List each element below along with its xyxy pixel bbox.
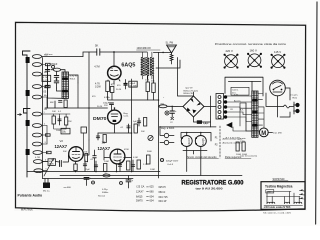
node bridge left dot xyxy=(171,106,173,108)
svg-text:6.8Mμ: 6.8Mμ xyxy=(104,97,111,99)
svg-text:5K: 5K xyxy=(95,44,98,48)
wire bridge top xyxy=(178,58,194,97)
svg-text:1.47K: 1.47K xyxy=(43,80,49,82)
wire right-left bus xyxy=(158,52,160,178)
capacitor C mid bottom xyxy=(94,161,107,172)
caption parte superiore xyxy=(225,156,251,159)
svg-text:100Ω: 100Ω xyxy=(236,154,241,156)
svg-text:DM70: DM70 xyxy=(93,116,107,121)
svg-text:Smont. zoccoli visti da sotto: Smont. zoccoli visti da sotto xyxy=(187,156,217,159)
svg-text:tipo V9: tipo V9 xyxy=(186,87,194,90)
capacitor pot cluster mid xyxy=(137,118,153,141)
label 4uF xyxy=(166,161,179,166)
dashed linkage line xyxy=(219,126,221,158)
resistor R7 vert xyxy=(236,142,239,151)
wires transformer right stubs xyxy=(258,94,264,129)
svg-text:≤40 fondo scala 2V 5K6: ≤40 fondo scala 2V 5K6 xyxy=(264,206,291,209)
svg-text:470: 470 xyxy=(111,84,116,87)
svg-text:1/4M: 1/4M xyxy=(150,169,155,171)
resistor R11 xyxy=(147,155,151,164)
wire heater bottom xyxy=(183,147,207,176)
svg-text:625: 625 xyxy=(150,186,155,189)
mains arrow black xyxy=(226,122,232,128)
svg-text:220 V: 220 V xyxy=(226,49,233,53)
capacitor C8 electrolytic xyxy=(126,176,134,189)
motor M1 xyxy=(259,128,282,137)
resistor R10 xyxy=(137,160,141,169)
wire cathode down xyxy=(108,92,159,101)
svg-text:A.T. 6.3V 125V: A.T. 6.3V 125V xyxy=(226,137,241,140)
svg-text:a rete: a rete xyxy=(240,137,246,140)
relay box xyxy=(231,87,249,95)
label accens xyxy=(234,95,244,112)
svg-text:25V: 25V xyxy=(104,105,108,107)
inset box testina xyxy=(261,182,305,210)
svg-text:50.16: 50.16 xyxy=(97,106,103,108)
svg-text:30K: 30K xyxy=(63,151,67,153)
node speaker dot xyxy=(162,52,164,54)
box 18c xyxy=(61,128,70,134)
label DM70 right xyxy=(124,113,130,118)
svg-text:R0L/1: R0L/1 xyxy=(70,78,76,80)
wire DM70 lower bus xyxy=(98,132,132,134)
node plate junction xyxy=(113,51,115,53)
resistor cluster left mid xyxy=(43,114,71,129)
connector J1 pin blocks xyxy=(26,57,30,155)
resistor mini c xyxy=(46,134,51,136)
svg-text:M.PI./Tech.: M.PI./Tech. xyxy=(21,209,33,212)
terminal T3 xyxy=(32,72,41,76)
tube V2 triode A xyxy=(55,139,84,161)
wire grid links xyxy=(42,155,68,162)
wire motor xyxy=(246,103,259,131)
wire top bus xyxy=(42,56,83,58)
svg-text:S0.4+0: S0.4+0 xyxy=(98,195,106,197)
svg-text:160 V: 160 V xyxy=(250,49,257,53)
svg-text:B300-C90: B300-C90 xyxy=(184,93,195,95)
switch power circle xyxy=(270,80,286,96)
capacitor C2 box xyxy=(129,81,137,87)
wire left bus B xyxy=(47,65,49,109)
border frame xyxy=(16,22,306,211)
speaker LS1 xyxy=(166,42,177,60)
label transformer right xyxy=(70,76,78,81)
capacitor C-link xyxy=(93,150,96,172)
component cluster lower osc xyxy=(52,100,67,113)
terminal T8 xyxy=(32,133,41,137)
wires strip to transformer xyxy=(227,96,252,122)
label ladder values xyxy=(145,80,155,83)
svg-text:50.16B: 50.16B xyxy=(130,86,137,88)
svg-text:Accens.: Accens. xyxy=(234,100,242,103)
resistor R1 4.7K xyxy=(95,81,109,92)
tube heater table xyxy=(136,186,168,203)
wire triodeB bottom xyxy=(104,150,117,172)
heater tube A 12AX7 xyxy=(181,136,192,147)
voltage switch S2 160V xyxy=(247,49,262,68)
wire power area misc xyxy=(233,103,246,131)
svg-text:0.25μ: 0.25μ xyxy=(102,189,108,191)
node dot-circle 1 xyxy=(92,181,95,184)
svg-text:Testina Magnetica: Testina Magnetica xyxy=(265,184,293,188)
pot arrow diagonal xyxy=(44,159,54,177)
label pins xyxy=(44,55,48,171)
svg-text:100K: 100K xyxy=(56,130,61,132)
wire strip vertical xyxy=(210,96,212,127)
svg-text:Fon: Fon xyxy=(44,72,47,74)
wire switch nets xyxy=(225,77,290,100)
resistor R2 470 xyxy=(110,84,115,93)
svg-text:25K: 25K xyxy=(68,121,72,123)
svg-text:tens.: tens. xyxy=(232,92,237,95)
component 1M box xyxy=(81,127,87,150)
svg-text:4.7Ω RI: 4.7Ω RI xyxy=(70,76,78,78)
fuse F1 xyxy=(284,105,290,108)
capacitor C11 dark xyxy=(197,120,208,125)
svg-text:625 PI: 625 PI xyxy=(159,186,167,189)
resistor mini d xyxy=(47,151,52,153)
jack J2 xyxy=(160,133,174,144)
svg-text:50.16: 50.16 xyxy=(116,89,122,91)
svg-text:Toll. valori res. e cond. ±10%: Toll. valori res. e cond. ±10% xyxy=(263,212,291,215)
terminal T5 xyxy=(32,95,41,99)
svg-text:I 25 CA: I 25 CA xyxy=(136,186,145,189)
svg-text:25μF: 25μF xyxy=(85,169,91,171)
wire bridge right xyxy=(204,106,216,108)
arrow into connector xyxy=(18,114,22,116)
mains plug P1 xyxy=(290,93,300,114)
svg-text:6×0.5: 6×0.5 xyxy=(168,163,174,166)
caption zoccoli xyxy=(187,156,219,159)
svg-text:DM70: DM70 xyxy=(136,200,143,203)
wire mid bus xyxy=(45,107,108,109)
terminal strip TS1 xyxy=(216,94,227,120)
resistor R4 ladder b xyxy=(152,83,155,93)
wire rete left xyxy=(159,127,161,135)
svg-text:100/CM94 RI: 100/CM94 RI xyxy=(137,47,151,50)
wires bottom bus 1 xyxy=(27,171,160,173)
svg-text:V2: V2 xyxy=(60,139,64,143)
wires bottom bus 2 xyxy=(60,175,242,177)
svg-text:12AX7: 12AX7 xyxy=(187,137,191,146)
wire rete bus xyxy=(160,126,216,128)
tube V2 triode B xyxy=(98,140,125,164)
svg-text:660: 660 xyxy=(150,191,155,194)
svg-text:B250-C75 [x2]: B250-C75 [x2] xyxy=(184,90,198,92)
svg-text:Comm.: Comm. xyxy=(232,90,239,92)
svg-text:mot. 4/W: mot. 4/W xyxy=(273,132,283,135)
wire to V3 plate xyxy=(113,52,115,66)
terminal T12 xyxy=(34,169,43,173)
capacitor C3 100uF xyxy=(103,103,114,111)
svg-text:1/2: 1/2 xyxy=(102,140,106,144)
terminal T10 xyxy=(33,151,42,155)
svg-text:6.3V: 6.3V xyxy=(234,95,239,97)
capacitor black C10 xyxy=(124,80,127,90)
inset label SOPR xyxy=(273,178,289,181)
wire bridge bottom xyxy=(194,117,211,122)
svg-text:2.2K: 2.2K xyxy=(143,164,148,166)
svg-text:SOPR.540: SOPR.540 xyxy=(273,178,286,181)
svg-text:ver.680: ver.680 xyxy=(64,186,72,189)
svg-text:Posizione commut. tensione v: Posizione commut. tensione vista da retr… xyxy=(215,42,286,46)
switch SW-rec black xyxy=(43,179,50,193)
junction dots bottom xyxy=(42,99,161,172)
node heater dots xyxy=(186,132,202,134)
svg-text:4.7M: 4.7M xyxy=(43,77,48,79)
resistor R3 ladder a xyxy=(146,82,149,92)
svg-text:604: 604 xyxy=(150,200,155,203)
terminal T1 xyxy=(32,55,41,59)
voltage switch S1 220V xyxy=(224,49,239,69)
capacitor cluster mid xyxy=(127,124,138,133)
terminal T4 xyxy=(32,85,41,89)
terminal T11 xyxy=(33,160,42,164)
oscillator transformer T-osc xyxy=(137,47,161,79)
svg-text:1M: 1M xyxy=(44,109,47,111)
wire fuse xyxy=(266,93,294,107)
resistor box R5 4.7M xyxy=(42,75,51,82)
svg-text:6AQ5: 6AQ5 xyxy=(136,195,143,198)
bridge rectifier B1 xyxy=(183,87,204,118)
svg-text:4(5)μF 160V: 4(5)μF 160V xyxy=(166,161,179,163)
wire speaker link xyxy=(153,52,180,68)
label mic values xyxy=(98,189,108,197)
svg-text:604 1P: 604 1P xyxy=(159,200,167,203)
svg-text:100Ω: 100Ω xyxy=(242,154,247,156)
resistor oval 750 xyxy=(159,104,167,108)
wires bottom bus 3 xyxy=(43,178,134,180)
svg-text:100 mm: 100 mm xyxy=(45,54,53,56)
wire bridge left xyxy=(159,105,184,107)
terminal T2 xyxy=(32,63,41,67)
capacitor C5 xyxy=(44,86,49,94)
svg-text:Reg. a 500K: Reg. a 500K xyxy=(161,127,175,130)
svg-text:4.7M: 4.7M xyxy=(94,66,99,69)
svg-text:Pulsante Audio: Pulsante Audio xyxy=(18,194,43,198)
pilot lamp LP1 xyxy=(165,111,169,115)
svg-text:1/2W: 1/2W xyxy=(95,85,101,88)
svg-text:12AX7: 12AX7 xyxy=(136,191,144,194)
svg-text:0.5M: 0.5M xyxy=(133,157,138,159)
label alzata xyxy=(223,138,244,145)
svg-text:CANC: CANC xyxy=(267,190,274,193)
wire screen bus xyxy=(88,52,90,140)
fuse oval on wire xyxy=(52,65,61,71)
input transformer T2 xyxy=(62,72,69,98)
svg-text:50K: 50K xyxy=(141,131,145,133)
svg-text:Com.: Com. xyxy=(124,116,130,118)
wire left bus A xyxy=(42,58,44,179)
svg-text:470K: 470K xyxy=(124,149,129,151)
wire ladder links xyxy=(148,76,154,100)
capacitor pair triodeB xyxy=(118,160,134,172)
svg-text:500Hz: 500Hz xyxy=(102,192,108,194)
svg-text:6AQ5: 6AQ5 xyxy=(121,63,135,69)
svg-text:SL. PM: SL. PM xyxy=(166,42,174,44)
svg-text:604: 604 xyxy=(150,195,155,198)
svg-text:10K: 10K xyxy=(52,111,56,113)
svg-text:150K: 150K xyxy=(49,164,55,166)
tube V4 DM70 xyxy=(93,110,121,124)
component cluster under DM70 xyxy=(96,133,106,143)
wire osc vertical x78 xyxy=(77,83,79,108)
power transformer T3 xyxy=(252,91,258,137)
svg-text:Rete: Rete xyxy=(293,97,298,100)
svg-text:1M: 1M xyxy=(84,151,87,153)
capacitor C6 xyxy=(60,161,62,167)
terminal T6 xyxy=(32,112,41,116)
label a rete xyxy=(240,137,246,143)
resistor R1M vert xyxy=(84,151,87,161)
svg-text:4.7M: 4.7M xyxy=(35,157,40,159)
svg-text:1.5K: 1.5K xyxy=(145,80,150,82)
svg-text:604 715: 604 715 xyxy=(159,196,169,199)
capacitor C9 filter xyxy=(170,106,177,120)
svg-text:1/4M: 1/4M xyxy=(104,161,109,163)
terminal T9 xyxy=(32,142,41,146)
svg-text:M: M xyxy=(261,131,266,137)
wire center bus xyxy=(131,79,133,172)
capacitor electro mid xyxy=(83,160,86,172)
resistor oval on bus xyxy=(103,173,110,177)
terminal T7 xyxy=(32,124,41,128)
resistor R8 vert xyxy=(242,142,245,151)
capacitor C7 electrolytic xyxy=(84,177,92,186)
svg-text:Mic 1a: Mic 1a xyxy=(43,191,50,193)
wire mid-left links xyxy=(46,97,48,144)
svg-text:tav 9 AU 20.650: tav 9 AU 20.650 xyxy=(196,186,223,190)
wire v4 bottom xyxy=(114,108,116,133)
voltage switch S3 115V xyxy=(271,50,286,69)
tube V3 6AQ5 xyxy=(108,63,136,80)
node dot-circle 2 xyxy=(120,182,123,185)
svg-text:68K: 68K xyxy=(50,102,54,104)
svg-text:12AX7: 12AX7 xyxy=(55,144,68,149)
wire V3 cathode xyxy=(108,80,120,85)
svg-text:500K: 500K xyxy=(147,151,152,153)
resistor under triode A xyxy=(74,162,77,170)
connector bracket mid xyxy=(24,109,31,114)
terminal stubs xyxy=(42,65,48,171)
capacitor C1 5K xyxy=(95,44,100,56)
scattered tiny labels xyxy=(44,54,247,171)
svg-text:Int. gen.: Int. gen. xyxy=(290,93,298,96)
node dot-circle 3 xyxy=(160,158,163,161)
resistor R9 xyxy=(127,161,131,170)
resistor mini b xyxy=(46,85,51,87)
wire osc links xyxy=(48,65,79,99)
wire triode links xyxy=(83,140,132,158)
svg-text:6AQ5: 6AQ5 xyxy=(201,138,205,145)
page right edge xyxy=(316,2,317,224)
capacitor C4 470pF xyxy=(45,63,58,71)
connector J1 body xyxy=(23,51,31,177)
svg-text:A.T.: A.T. xyxy=(240,109,244,112)
heater tube B 6AQ5 xyxy=(195,136,206,147)
wire heater top bus xyxy=(181,133,211,142)
resistor R6 100-150K xyxy=(48,159,56,166)
capacitor pair osc xyxy=(54,71,59,88)
resistor mini a xyxy=(46,63,51,65)
wire plug net xyxy=(278,96,291,117)
wire plate bus xyxy=(83,52,147,57)
svg-text:115 V: 115 V xyxy=(274,50,281,54)
svg-text:660 Ω: 660 Ω xyxy=(159,191,166,194)
